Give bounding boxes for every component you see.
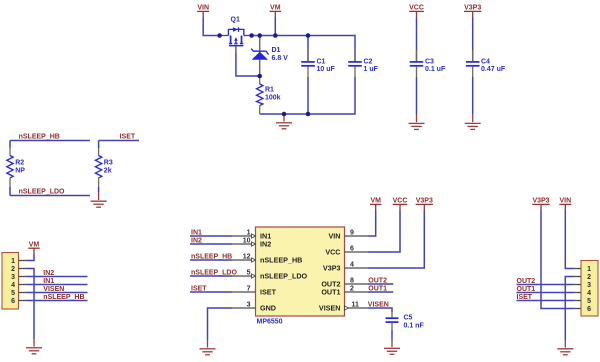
resistor R2 NP <box>7 141 25 196</box>
svg-text:4: 4 <box>11 282 15 289</box>
wire OUT1 <box>368 291 393 293</box>
pin 1 stub <box>232 235 256 237</box>
svg-text:VM: VM <box>29 241 40 248</box>
svg-text:ISET: ISET <box>120 134 136 141</box>
svg-text:6: 6 <box>350 245 354 252</box>
pin 5 input arrow <box>252 274 256 278</box>
svg-text:10 uF: 10 uF <box>317 66 336 73</box>
pin 7 stub <box>232 291 256 293</box>
svg-text:100k: 100k <box>265 94 281 101</box>
J1 pin 3 stub <box>19 276 28 278</box>
wire J1 pin4 IN1 <box>27 284 88 286</box>
svg-text:NP: NP <box>15 167 25 174</box>
svg-text:6: 6 <box>587 306 591 313</box>
svg-text:8: 8 <box>350 277 354 284</box>
diode D1 zener 6.8 V <box>251 36 288 77</box>
wire IN1 <box>190 235 232 237</box>
power symbol V3P3 (top) <box>464 5 481 18</box>
svg-text:2: 2 <box>350 285 354 292</box>
svg-text:4: 4 <box>587 290 591 297</box>
svg-text:IN2: IN2 <box>260 240 271 249</box>
ground (top middle) <box>276 114 292 129</box>
wire J1 pin1 to VM <box>27 254 34 261</box>
svg-text:1: 1 <box>11 258 15 265</box>
svg-text:V3P3: V3P3 <box>416 198 433 205</box>
wire J1 pin5 VISEN <box>27 292 88 294</box>
ground (under C5) <box>384 340 400 355</box>
ground (under C4) <box>465 115 481 130</box>
power symbol VIN (right) <box>559 198 571 211</box>
transistor Q1 (P-MOSFET with body diode) <box>219 17 252 53</box>
wire GND pin3 to ground <box>208 308 233 340</box>
J1 pin 6 stub <box>19 300 28 302</box>
capacitor C5 0.1 nF <box>386 308 425 340</box>
svg-text:9: 9 <box>350 229 354 236</box>
ground (under C3) <box>409 115 425 130</box>
svg-text:V3P3: V3P3 <box>323 264 341 273</box>
resistor R3 2k <box>95 141 101 193</box>
wire VM to rail <box>274 18 276 36</box>
svg-text:2: 2 <box>11 266 15 273</box>
wire VIN down and main top rail <box>203 18 219 36</box>
op-amp/driver IC U1 MP6550 body <box>256 227 345 316</box>
svg-text:0.47 uF: 0.47 uF <box>481 66 506 73</box>
svg-text:5: 5 <box>587 298 591 305</box>
svg-text:1: 1 <box>587 266 591 273</box>
power symbol VIN (top) <box>197 5 209 18</box>
J2 pin 1 stub <box>573 268 581 270</box>
J2 pin 6 stub <box>573 308 581 310</box>
wire J2 pin2 to ground <box>565 277 573 341</box>
junction node ground tap <box>282 112 287 117</box>
junction node top rail at Q1 source <box>217 33 222 38</box>
capacitor C2 1 uF <box>348 35 378 115</box>
svg-text:VCC: VCC <box>393 198 408 205</box>
wire OUT2 <box>368 283 393 285</box>
pin 6 stub <box>345 251 369 253</box>
junction node top rail at Q1 drain <box>249 33 254 38</box>
connector J2 body <box>581 261 598 317</box>
pin 5 stub <box>232 275 256 277</box>
svg-text:R1: R1 <box>265 87 274 94</box>
junction node C1 bottom <box>306 112 311 117</box>
pin 9 stub <box>345 235 369 237</box>
J2 pin 2 stub <box>573 276 581 278</box>
svg-text:4: 4 <box>350 261 354 268</box>
power symbol V3P3 (right) <box>532 198 549 211</box>
wire nSLEEP_HB <box>190 259 232 261</box>
svg-text:2k: 2k <box>104 167 112 174</box>
power symbol VM (left) <box>28 241 39 254</box>
svg-text:0.1 nF: 0.1 nF <box>404 322 425 329</box>
wire J2 pin5 ISET <box>517 300 574 302</box>
svg-text:VM: VM <box>270 5 281 12</box>
svg-text:6.8 V: 6.8 V <box>272 55 289 62</box>
junction node gate/D1/R1 <box>257 74 262 79</box>
capacitor C3 0.1 uF <box>410 18 446 115</box>
pin 10 stub <box>232 243 256 245</box>
ground (left connector) <box>26 339 42 354</box>
J2 pin numbers <box>587 266 591 313</box>
wire top rail right of Q1 <box>251 35 355 37</box>
svg-text:R2: R2 <box>15 160 24 167</box>
J2 pin 3 stub <box>573 284 581 286</box>
svg-text:VCC: VCC <box>409 5 424 12</box>
wire Q1 gate loop to D1/R1 node <box>236 53 258 76</box>
svg-text:12: 12 <box>243 253 251 260</box>
junction node D1 top <box>257 33 262 38</box>
pin 12 stub <box>232 259 256 261</box>
svg-text:ISET: ISET <box>260 288 277 297</box>
svg-text:1: 1 <box>247 229 251 236</box>
power symbol V3P3 (mid) <box>416 198 433 211</box>
pin 10 input arrow <box>252 242 256 246</box>
svg-text:C1: C1 <box>317 58 326 65</box>
J2 pin 5 stub <box>573 300 581 302</box>
J2 pin 4 stub <box>573 292 581 294</box>
svg-text:3: 3 <box>587 282 591 289</box>
wire VIN pin9 to VM <box>368 211 376 237</box>
wire ISET <box>99 140 139 142</box>
svg-text:C3: C3 <box>425 58 434 65</box>
svg-text:D1: D1 <box>272 47 281 54</box>
svg-text:GND: GND <box>260 304 276 313</box>
wire J2 pin4 OUT1 <box>517 292 574 294</box>
svg-text:5: 5 <box>247 269 251 276</box>
connector J1 body <box>2 253 19 310</box>
pin 11 output arrow <box>345 306 349 310</box>
svg-text:VM: VM <box>370 198 381 205</box>
svg-text:VIN: VIN <box>329 232 341 241</box>
ground (right connector) <box>557 340 573 355</box>
wire J1 pin6 nSLEEP_HB <box>27 300 88 302</box>
wire VISEN pin11 to C5 <box>368 308 392 312</box>
svg-text:nSLEEP_LDO: nSLEEP_LDO <box>19 189 65 196</box>
wire nSLEEP_LDO <box>190 275 232 277</box>
svg-text:C5: C5 <box>404 315 413 322</box>
svg-text:1 uF: 1 uF <box>364 66 379 73</box>
pin 1 input arrow <box>252 234 256 238</box>
svg-text:0.1 uF: 0.1 uF <box>425 66 446 73</box>
wire IN2 <box>190 243 232 245</box>
svg-text:3: 3 <box>247 301 251 308</box>
svg-text:2: 2 <box>587 274 591 281</box>
svg-text:R3: R3 <box>104 160 113 167</box>
wire J1 pin2 to ground <box>27 269 34 340</box>
power symbol VCC (top) <box>409 5 424 18</box>
svg-text:VISEN: VISEN <box>319 304 341 313</box>
junction node VM drop <box>273 33 278 38</box>
svg-text:Q1: Q1 <box>231 17 240 24</box>
power symbol VM (mid) <box>370 198 381 211</box>
J1 pin 4 stub <box>19 284 28 286</box>
svg-text:3: 3 <box>11 274 15 281</box>
capacitor C1 10 uF <box>301 36 335 115</box>
svg-text:C2: C2 <box>364 58 373 65</box>
svg-text:V3P3: V3P3 <box>532 198 549 205</box>
svg-text:MP6550: MP6550 <box>257 318 283 325</box>
wire V3P3 to J2 pin6 <box>541 211 574 309</box>
J1 pin numbers <box>11 258 15 305</box>
svg-text:VCC: VCC <box>325 248 340 257</box>
capacitor C4 0.47 uF <box>466 18 506 115</box>
junction node C1 top <box>306 33 311 38</box>
pin 2 stub <box>345 291 369 293</box>
svg-text:VIN: VIN <box>197 5 209 12</box>
resistor R1 100k <box>257 76 281 114</box>
wire VIN to J2 pin1 <box>565 211 573 269</box>
pin 4 stub <box>345 267 369 269</box>
ground (under R3) <box>91 192 107 207</box>
pin 8 stub <box>345 283 369 285</box>
pin 11 stub <box>345 307 369 309</box>
wire VCC pin6 to VCC <box>368 211 400 253</box>
svg-text:V3P3: V3P3 <box>464 5 481 12</box>
J1 pin 1 stub <box>19 260 28 262</box>
wire ISET <box>190 291 232 293</box>
svg-text:OUT1: OUT1 <box>321 288 340 297</box>
wire nSLEEP_LDO <box>10 195 90 197</box>
svg-text:7: 7 <box>247 285 251 292</box>
J1 pin 5 stub <box>19 292 28 294</box>
wire J2 pin3 OUT2 <box>517 284 574 286</box>
pin 12 input arrow <box>252 258 256 262</box>
wire V3P3 pin4 to V3P3 <box>368 211 424 269</box>
svg-text:10: 10 <box>243 237 251 244</box>
wire nSLEEP_HB <box>10 140 90 142</box>
svg-text:nSLEEP_HB: nSLEEP_HB <box>19 134 60 141</box>
J1 pin 2 stub <box>19 268 28 270</box>
svg-text:11: 11 <box>352 301 360 308</box>
svg-text:6: 6 <box>11 298 15 305</box>
pin 3 stub <box>232 307 256 309</box>
svg-text:nSLEEP_HB: nSLEEP_HB <box>260 256 302 265</box>
svg-text:C4: C4 <box>481 58 490 65</box>
wire bottom rail <box>260 113 355 115</box>
power symbol VCC (mid) <box>393 198 408 211</box>
svg-text:5: 5 <box>11 290 15 297</box>
wire J1 pin3 IN2 <box>27 276 88 278</box>
power symbol VM (top) <box>270 5 281 18</box>
svg-text:VIN: VIN <box>559 198 571 205</box>
pin names inside IC <box>260 232 341 313</box>
ground (IC GND) <box>200 340 216 355</box>
svg-text:nSLEEP_LDO: nSLEEP_LDO <box>260 272 308 281</box>
